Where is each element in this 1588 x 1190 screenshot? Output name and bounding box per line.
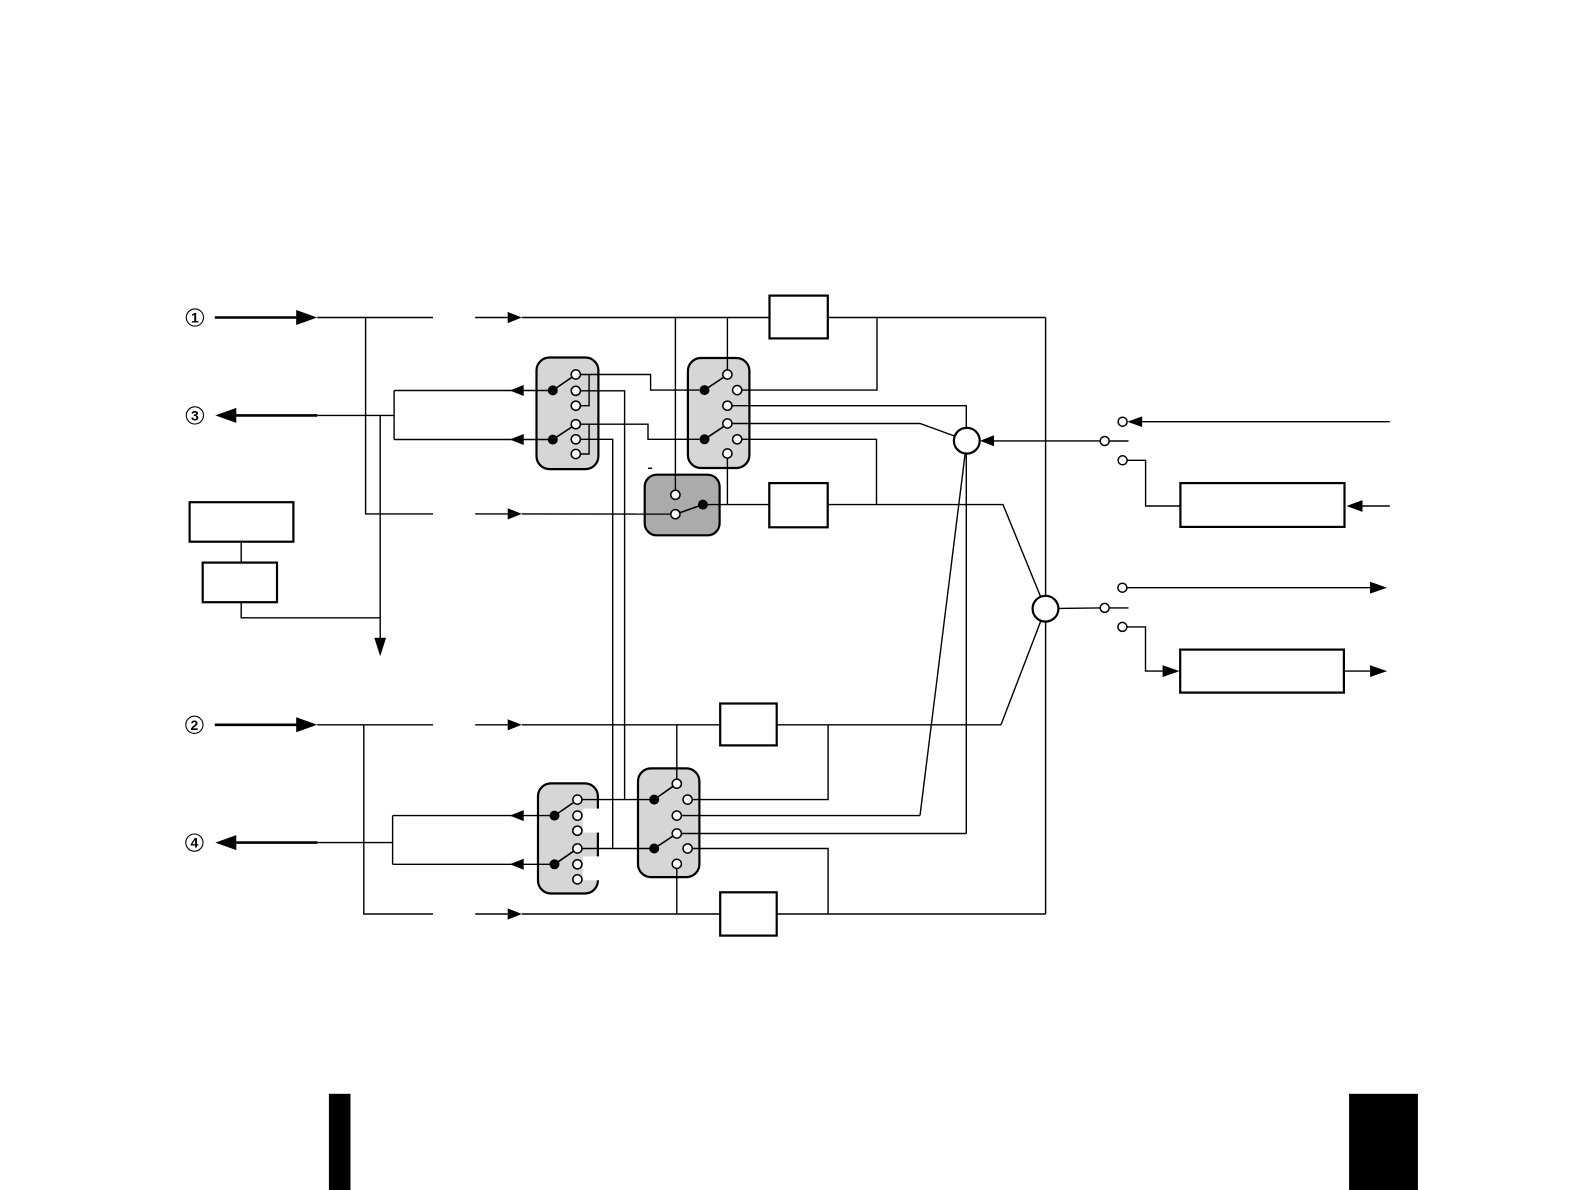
wire bracket bottom to SW3 lower common: [393, 863, 550, 865]
box B3 on S5 output: [769, 483, 827, 527]
SW4 contact circles: [672, 779, 692, 868]
wire node1 down to SW4 mid contact2 wire: [965, 454, 967, 834]
wire from right input to node1 top contact: [1142, 421, 1390, 423]
wire drop row2 to bottom row: [364, 725, 433, 914]
node1 selector bottom contact: [1118, 456, 1127, 465]
svg-text:4: 4: [191, 835, 199, 851]
svg-text:3: 3: [191, 407, 199, 423]
wire SW2 mid contact1 to node1 top: [732, 406, 966, 428]
SW2 common poles: [700, 385, 710, 444]
output 3 arrowhead: [215, 408, 236, 423]
wire SW4 mid contact2 to node1 drop: [681, 833, 966, 835]
node1 selector mid contact: [1100, 437, 1109, 446]
node1 selector mid stub: [1109, 440, 1128, 442]
wire row4out to bracket: [317, 842, 392, 844]
output 4 arrowhead: [215, 835, 236, 850]
arrow into box R2: [1163, 665, 1180, 677]
wire row1 after box B1: [828, 317, 1046, 319]
wire bottom row rise to node2: [1045, 622, 1047, 914]
box L1: [190, 502, 294, 542]
SW3 whiteout notch lower: [583, 856, 610, 880]
arrow into box R1 right side: [1347, 500, 1363, 512]
arrow row2: [508, 719, 522, 730]
wire row2 to box B4: [522, 724, 720, 726]
svg-text:2: 2: [191, 717, 199, 733]
wire SW4 right contact1 to row2 riser: [692, 725, 828, 800]
wire row3 after gap: [475, 513, 508, 515]
selector SW2 body: [688, 358, 750, 468]
node2 selector mid contact: [1100, 603, 1109, 612]
wire node1 slant down to SW4 mid contact1 wire: [920, 453, 965, 815]
SW4 common poles: [649, 795, 659, 854]
wire SW4 right contact2 down to bottom row: [692, 849, 828, 915]
box L2: [203, 563, 277, 603]
arrowhead down: [374, 638, 386, 657]
node label ③ output 3: [186, 407, 203, 424]
wire row1 to switch gap: [317, 317, 433, 319]
SW1 upper lever: [553, 377, 572, 390]
wire box R2 output: [1344, 670, 1370, 672]
wire S5 common output to node2 diagonal: [708, 504, 770, 506]
wire L2 to drop arrow: [241, 602, 380, 618]
SW2 contact circles: [723, 370, 742, 458]
wire row1 after gap: [475, 317, 508, 319]
wire bottom row to box B5: [522, 913, 720, 915]
arrow row1: [508, 312, 522, 323]
wire node1 selector common: [994, 440, 1100, 442]
SW3 contact circles: [573, 795, 582, 884]
wire SW4 mid contact1 to node1 slant: [681, 815, 920, 817]
wire SW1 bracket contact4-contact6: [580, 424, 589, 454]
wire drop from row1 to row3: [366, 318, 433, 514]
wire SW1 contact5 down to SW4 lower common wire: [580, 439, 612, 848]
node label ② input 2: [186, 716, 203, 733]
wire SW1 contact1 to SW2 upper common: [580, 375, 699, 391]
SW3 lower lever: [555, 851, 574, 864]
wire input 1 thick shaft: [215, 316, 297, 319]
box R2: [1180, 650, 1344, 693]
node label ④ output 4: [186, 834, 203, 851]
bracket mixer for output 4: [392, 816, 394, 865]
SW3 whiteout notch upper: [583, 809, 610, 833]
arrow into bracket bottom: [510, 434, 524, 445]
wire row1 down to S5 top contact: [674, 318, 676, 491]
wire row1 to box B1: [522, 317, 770, 319]
S5 contact circles: [671, 490, 680, 519]
node label ① input 1: [186, 309, 203, 326]
mixing node1: [954, 428, 980, 454]
SW2 upper lever: [705, 378, 724, 391]
node2 selector bottom contact: [1118, 622, 1127, 631]
arrow into bracket top: [510, 810, 524, 821]
wire bracket top to SW1 upper common: [394, 390, 548, 392]
arrow into bracket bottom: [510, 859, 524, 870]
arrow right output lower: [1370, 665, 1387, 677]
box B5 on bottom row: [720, 892, 777, 935]
wire node2 bottom contact to box R2: [1127, 627, 1163, 671]
wire bottom row after gap: [475, 913, 508, 915]
S5 lever: [680, 505, 703, 513]
SW1 contact circles: [571, 370, 580, 459]
wire bracket bottom to SW1 lower common: [394, 439, 548, 441]
input 2 arrowhead: [296, 717, 317, 732]
wire bottom row after box B5: [777, 913, 1046, 915]
print mark bar left: [329, 1094, 351, 1190]
wire node2 selector common: [1058, 607, 1100, 610]
S5 common pole: [698, 500, 708, 510]
wire row2 to gap: [317, 724, 433, 726]
input 1 arrowhead: [296, 310, 317, 325]
wire SW1 contact2 down to SW3 contact1: [580, 391, 624, 800]
SW1 common poles: [548, 385, 558, 444]
wire SW1 bracket contact1-contact3: [580, 375, 589, 406]
arrow into bracket top: [510, 385, 524, 396]
wire row3out to bracket: [317, 414, 394, 416]
wire row1 down to SW2 top contact: [726, 318, 728, 370]
print mark bar right: [1349, 1094, 1418, 1190]
wire SW3 contact1 to SW4 upper common: [582, 799, 654, 801]
SW3 upper lever: [555, 803, 574, 816]
bracket mixer for output 3: [393, 391, 395, 440]
arrow bottom row: [508, 908, 522, 919]
node2 selector mid stub: [1109, 607, 1128, 609]
arrow row3: [508, 508, 522, 519]
wire row2 down to SW4 top contact: [676, 725, 678, 779]
box B1 on row1: [770, 296, 828, 339]
wire row3 to S5 lower contact: [522, 513, 671, 515]
wire node2 top contact to right output: [1127, 587, 1370, 589]
wire output 4 thick shaft: [236, 841, 317, 844]
SW4 lower lever: [654, 836, 673, 848]
SW1 lower lever: [553, 427, 572, 440]
wire SW4 bottom contact down to bottom row: [676, 869, 678, 915]
box B4 on row2: [720, 704, 777, 746]
wire SW1 contact4 to SW2 lower common: [580, 424, 699, 439]
selector SW3 body: [538, 783, 598, 893]
wire row1 drop to mixer node2: [1045, 318, 1047, 596]
wire SW3 contact4 to SW4 lower common: [582, 848, 654, 850]
wire right input into box R1: [1363, 505, 1390, 507]
arrow into node1 top contact: [1127, 416, 1142, 427]
wire output 3 thick shaft: [236, 414, 317, 417]
SW3 common poles: [550, 811, 560, 870]
node2 selector top contact: [1118, 583, 1127, 592]
svg-text:1: 1: [191, 310, 199, 326]
selector SW1 body: [537, 358, 599, 470]
wire SW2 right contact1 to row1 riser: [742, 318, 877, 391]
monitor switch S5 body: [645, 475, 720, 536]
box R1: [1180, 483, 1344, 527]
selector SW4 body: [638, 768, 699, 877]
wire L1 to L2: [240, 542, 242, 563]
wire bracket top to SW3 upper common: [393, 815, 550, 817]
wire node1 bottom contact to box R1: [1127, 460, 1180, 506]
SW4 upper lever: [654, 786, 673, 799]
stray dash above S5: [648, 467, 652, 469]
wire SW2 right contact2 down to S5 output line: [742, 439, 877, 504]
arrow right output upper: [1370, 582, 1387, 594]
wire SW2 bottom contact down to S5 output line: [726, 458, 728, 505]
wire SW2 mid contact2 diagonal to node1: [732, 424, 955, 437]
wire row2 diagonal into node2: [1001, 621, 1041, 725]
arrow into node1: [980, 435, 994, 446]
wire drop from output3 line: [379, 415, 381, 638]
wire S5 output after box B3: [828, 505, 1041, 597]
SW2 lower lever: [705, 427, 724, 440]
wire row2 after box B4: [777, 724, 1001, 726]
wire row2 after gap: [475, 724, 508, 726]
node1 selector top contact: [1118, 417, 1127, 426]
mixing node2: [1033, 596, 1059, 622]
wire input 2 thick shaft: [215, 723, 297, 726]
